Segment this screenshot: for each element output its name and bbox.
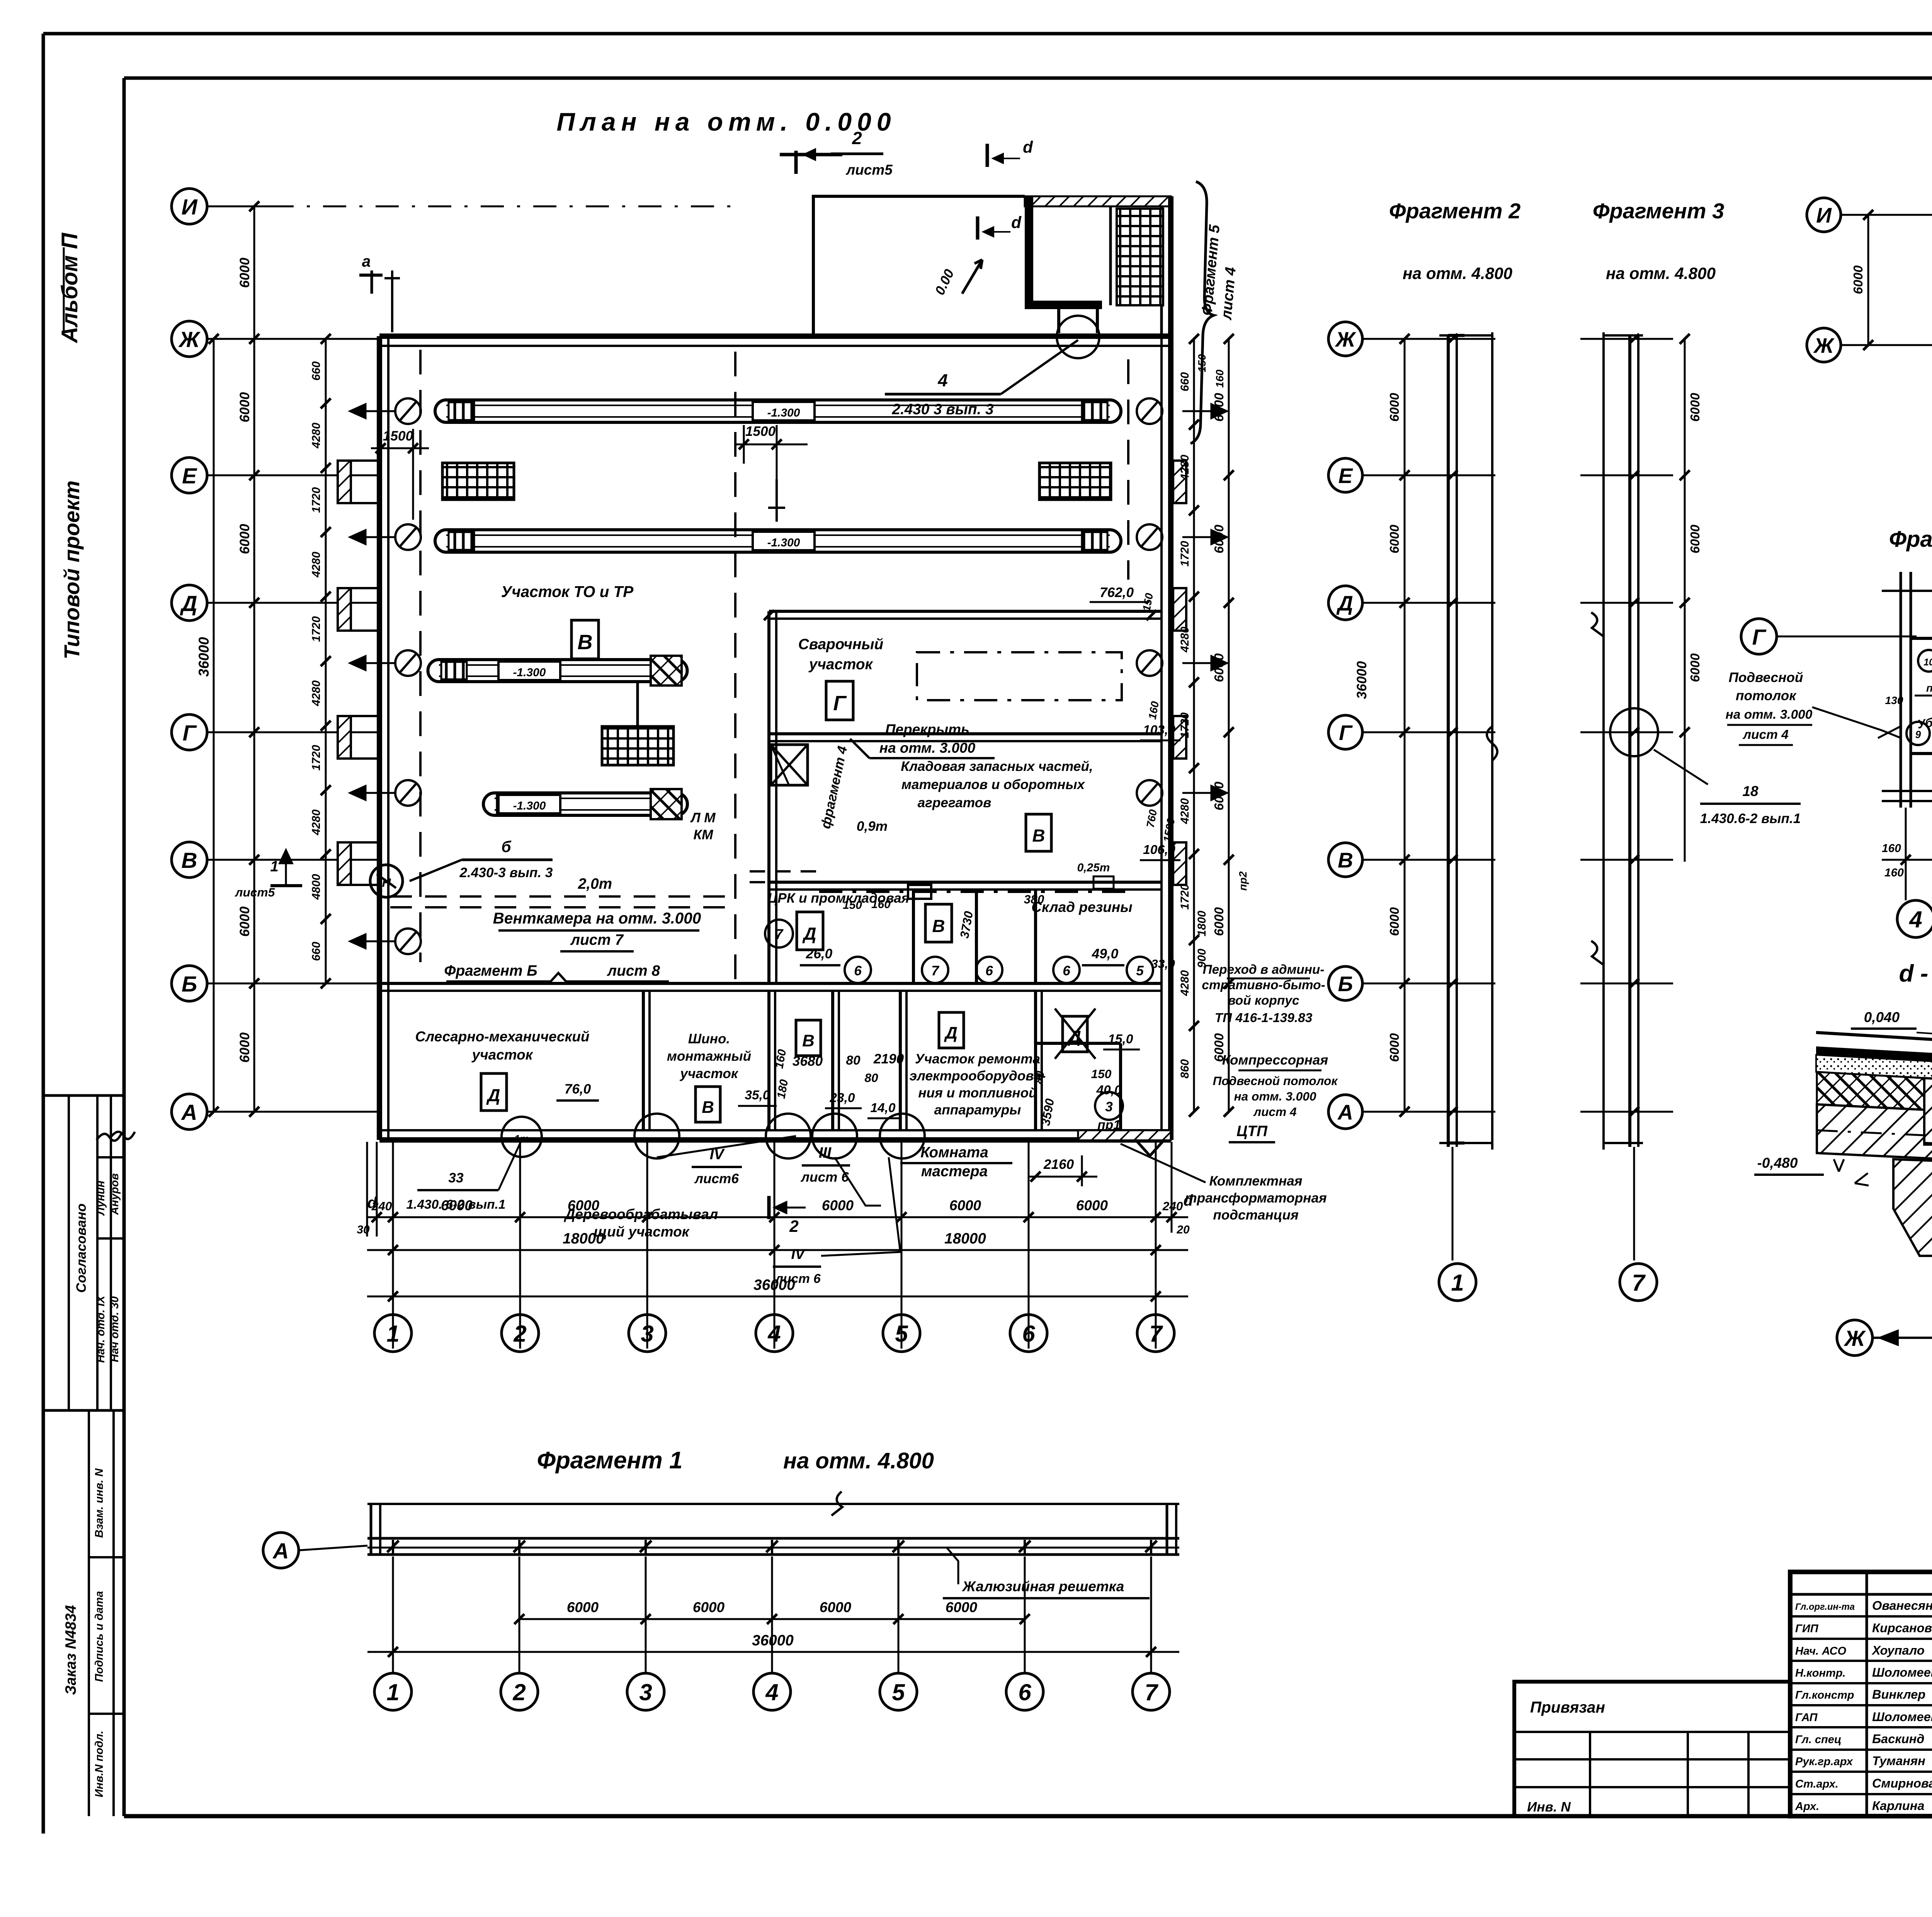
svg-text:Винклер: Винклер <box>1872 1687 1925 1701</box>
svg-text:0,9т: 0,9т <box>857 819 888 834</box>
svg-text:лист 8: лист 8 <box>607 963 660 979</box>
partition wall Перекрыть на отм. 3.000 <box>769 732 1162 735</box>
svg-text:4: 4 <box>767 1321 781 1347</box>
svg-text:на отм. 4.800: на отм. 4.800 <box>1606 264 1716 282</box>
svg-text:Комната: Комната <box>920 1144 988 1161</box>
svg-text:Фрагмент 2: Фрагмент 2 <box>1389 199 1520 223</box>
svg-text:ЦТП: ЦТП <box>1236 1123 1268 1140</box>
svg-text:Д: Д <box>802 924 816 944</box>
room letter Д box crossed <box>1063 1016 1087 1052</box>
right dim chain 6000 <box>1228 339 1230 1112</box>
svg-text:5: 5 <box>892 1679 905 1705</box>
bottom dim chain row1 (240,6000x6,240) <box>367 1216 1188 1218</box>
svg-text:6000: 6000 <box>237 524 252 554</box>
svg-text:6000: 6000 <box>1212 1033 1226 1062</box>
svg-text:660: 660 <box>1179 372 1191 391</box>
svg-text:240: 240 <box>1162 1199 1183 1213</box>
svg-text:Гл.констр: Гл.констр <box>1795 1689 1854 1701</box>
svg-text:1720: 1720 <box>310 745 323 771</box>
svg-text:Д: Д <box>179 591 197 616</box>
svg-text:6: 6 <box>1063 963 1070 978</box>
left dim chain 36000 total <box>213 339 215 1112</box>
svg-text:фрагмент 4: фрагмент 4 <box>818 745 850 830</box>
left exit arrows with circled numbers <box>350 404 395 418</box>
trench ladder right row2 <box>1039 463 1111 500</box>
svg-text:Подвесной: Подвесной <box>1729 670 1803 685</box>
fragment 3 circled node at Г <box>1610 708 1658 756</box>
trench row 3 short (-1.300) <box>428 660 439 682</box>
svg-text:материалов и оборотных: материалов и оборотных <box>901 777 1085 792</box>
svg-text:лист 4: лист 4 <box>1218 266 1239 321</box>
svg-text:36000: 36000 <box>1354 661 1369 699</box>
Склад резины partitions <box>912 890 915 983</box>
room letter В box (кладовая) <box>1026 814 1051 851</box>
svg-text:А: А <box>1337 1100 1353 1124</box>
svg-text:6: 6 <box>854 963 862 978</box>
section mark 2 лист 5 (top) <box>794 151 798 174</box>
building outer wall bottom (axis А) <box>379 1137 1171 1143</box>
room letter В box (шино) <box>696 1087 720 1122</box>
fragment 5 brace right <box>1190 182 1214 444</box>
svg-text:36000: 36000 <box>196 637 212 677</box>
svg-text:240: 240 <box>371 1199 392 1213</box>
svg-text:2,0т: 2,0т <box>578 876 612 892</box>
title block outer frame <box>1790 1572 1932 1816</box>
axis circle Ж <box>172 321 207 357</box>
bottom dim chain row3 (36000) <box>367 1296 1188 1298</box>
sidebar approval box <box>43 1095 124 1410</box>
svg-text:мастера: мастера <box>921 1163 988 1180</box>
svg-text:Альбом П: Альбом П <box>57 232 82 344</box>
svg-text:Привязан: Привязан <box>1530 1698 1605 1716</box>
room letter В box (3730 room) <box>925 904 952 942</box>
svg-text:Ж: Ж <box>178 327 201 352</box>
svg-text:80: 80 <box>846 1053 861 1068</box>
svg-text:Хоупало: Хоупало <box>1871 1643 1925 1657</box>
dashed line centre axis 4 area <box>734 352 736 989</box>
svg-text:Инв.N подл.: Инв.N подл. <box>93 1731 105 1798</box>
svg-text:А: А <box>180 1100 197 1125</box>
svg-text:пр2: пр2 <box>1926 682 1932 694</box>
svg-text:6000: 6000 <box>1212 653 1226 682</box>
svg-text:150: 150 <box>1091 1067 1112 1081</box>
svg-text:Слесарно-механический: Слесарно-механический <box>415 1029 590 1044</box>
svg-text:лист5: лист5 <box>845 162 893 178</box>
svg-text:Подвесной потолок: Подвесной потолок <box>1213 1074 1338 1088</box>
svg-text:3680: 3680 <box>793 1054 823 1069</box>
suspended ceiling dash-dot rect <box>917 652 1122 700</box>
basement axis circle И <box>1807 198 1841 232</box>
corridor wall vertical <box>767 611 770 983</box>
svg-text:15,0: 15,0 <box>1108 1032 1133 1046</box>
svg-text:лист 6: лист 6 <box>800 1170 849 1185</box>
d-d crosshatch insulation block <box>1817 1072 1924 1110</box>
svg-text:20: 20 <box>1176 1223 1190 1236</box>
svg-text:36000: 36000 <box>753 1277 795 1293</box>
fragment 1 top line <box>367 1503 1179 1505</box>
d-d roof slope top line <box>1816 1032 1932 1079</box>
опора hatched пр1 <box>1078 1130 1171 1140</box>
page outer border left <box>42 34 45 1834</box>
svg-text:агрегатов: агрегатов <box>918 795 992 810</box>
room letter В box small <box>796 1020 821 1056</box>
svg-text:Фрагмент Б: Фрагмент Б <box>444 963 537 979</box>
circled 3 пр1 <box>1095 1092 1123 1120</box>
svg-text:1720: 1720 <box>310 487 323 513</box>
fragment 1 column ticks <box>387 1541 399 1552</box>
svg-text:4800: 4800 <box>310 874 323 900</box>
d-d wall block hatched <box>1817 1104 1932 1159</box>
sidebar signatures <box>97 1134 121 1141</box>
svg-text:Участок ремонта: Участок ремонта <box>915 1051 1040 1067</box>
fragment 2 axis circle 1 bottom <box>1452 1147 1454 1260</box>
svg-text:1800: 1800 <box>1196 910 1208 936</box>
svg-text:106,0: 106,0 <box>1143 843 1175 857</box>
d-d beam hatched <box>1924 1078 1932 1147</box>
svg-text:180: 180 <box>775 1078 791 1100</box>
d-d axis circles Ж И bottom <box>1837 1320 1872 1356</box>
svg-text:d - d: d - d <box>1899 960 1932 987</box>
svg-text:7: 7 <box>1149 1321 1163 1347</box>
svg-text:1720: 1720 <box>1179 712 1191 738</box>
svg-text:80: 80 <box>1032 1070 1047 1085</box>
circled numbers row above Б wall <box>845 957 871 983</box>
svg-text:Г: Г <box>183 721 197 745</box>
svg-text:80: 80 <box>864 1071 878 1085</box>
svg-text:d: d <box>1011 213 1022 231</box>
svg-text:В: В <box>802 1031 815 1050</box>
svg-text:150: 150 <box>843 899 862 912</box>
svg-text:Ж: Ж <box>1335 327 1357 351</box>
svg-text:В: В <box>702 1098 714 1117</box>
svg-text:5: 5 <box>1136 963 1144 978</box>
svg-text:Комплектная: Комплектная <box>1209 1174 1303 1189</box>
svg-text:660: 660 <box>310 942 323 961</box>
svg-text:18000: 18000 <box>944 1230 986 1247</box>
entrance block top right <box>813 196 1025 336</box>
svg-text:6000: 6000 <box>1076 1197 1108 1213</box>
svg-text:-1.300: -1.300 <box>767 536 800 549</box>
svg-text:Д: Д <box>1336 591 1353 615</box>
svg-text:4280: 4280 <box>310 422 323 449</box>
svg-text:Нач отд. 30: Нач отд. 30 <box>109 1296 121 1362</box>
svg-text:1: 1 <box>386 1679 399 1705</box>
section mark d (top) <box>986 144 989 167</box>
svg-text:Карлина: Карлина <box>1872 1799 1924 1813</box>
svg-text:-0,480: -0,480 <box>1757 1155 1798 1171</box>
svg-text:160: 160 <box>1882 842 1901 855</box>
svg-text:762,0: 762,0 <box>1100 585 1134 600</box>
svg-text:6000: 6000 <box>1388 524 1402 553</box>
fragment 1 dim 36000 <box>367 1651 1179 1653</box>
svg-text:Гл.орг.ин-та: Гл.орг.ин-та <box>1795 1602 1855 1612</box>
axis circles 1-7 bottom <box>374 1315 412 1352</box>
monorail 2.0т dashed line <box>390 895 736 898</box>
svg-text:4280: 4280 <box>1179 798 1191 824</box>
svg-text:7: 7 <box>775 926 784 942</box>
axis circle И <box>172 189 207 224</box>
svg-text:6000: 6000 <box>567 1599 599 1615</box>
svg-text:лист 4: лист 4 <box>1253 1105 1297 1119</box>
svg-text:Фрагмент 1: Фрагмент 1 <box>537 1447 683 1474</box>
svg-text:Е: Е <box>1338 464 1354 488</box>
svg-text:Ст.арх.: Ст.арх. <box>1795 1778 1838 1790</box>
svg-text:лист5: лист5 <box>235 885 275 899</box>
fragment 1 left end <box>370 1504 372 1555</box>
svg-text:6000: 6000 <box>237 906 252 937</box>
svg-text:участок: участок <box>679 1066 739 1081</box>
svg-text:Заказ N4834: Заказ N4834 <box>63 1605 79 1695</box>
svg-text:Сварочный: Сварочный <box>798 636 883 653</box>
svg-text:Инв. N: Инв. N <box>1527 1800 1571 1815</box>
svg-text:4: 4 <box>937 371 947 390</box>
svg-text:18000: 18000 <box>563 1230 604 1247</box>
svg-text:5: 5 <box>895 1321 908 1347</box>
svg-text:6000: 6000 <box>1388 907 1402 936</box>
svg-text:23,0: 23,0 <box>829 1091 855 1105</box>
fragment 1 break mark <box>832 1492 842 1516</box>
fragment 3 dim chain 6000 right <box>1684 339 1686 862</box>
svg-text:аппаратуры: аппаратуры <box>934 1102 1021 1118</box>
building outer wall right (axis 7) <box>1168 336 1173 1140</box>
fragment 3 axis circle 7 bottom <box>1633 1147 1635 1260</box>
svg-text:Нач. АСО: Нач. АСО <box>1795 1645 1847 1657</box>
svg-text:2.430 3 вып. 3: 2.430 3 вып. 3 <box>891 401 994 418</box>
svg-text:КМ: КМ <box>694 827 714 842</box>
basement axis circle Ж <box>1807 328 1841 362</box>
svg-text:10: 10 <box>1923 657 1932 668</box>
svg-text:И: И <box>182 195 198 219</box>
room letter Д box (участок ремонта) <box>939 1012 964 1048</box>
svg-text:Кирсанов: Кирсанов <box>1872 1621 1932 1635</box>
svg-text:6: 6 <box>1018 1679 1031 1705</box>
section mark 1 лист 5 left <box>280 850 292 885</box>
svg-text:лист 4: лист 4 <box>1742 728 1789 742</box>
building outer wall left (axis 1) <box>377 336 382 1140</box>
svg-text:монтажный: монтажный <box>667 1049 751 1064</box>
svg-text:Арх.: Арх. <box>1795 1800 1819 1813</box>
svg-text:III: III <box>819 1145 832 1161</box>
svg-text:Д: Д <box>486 1085 500 1105</box>
svg-text:6000: 6000 <box>949 1197 981 1213</box>
svg-text:План на отм. 0.000: План на отм. 0.000 <box>556 107 896 136</box>
trench row 1 (-1.300) <box>435 400 446 422</box>
fragment 3 break marks <box>1591 612 1604 636</box>
svg-text:2190: 2190 <box>873 1051 904 1067</box>
svg-text:6000: 6000 <box>1388 393 1402 422</box>
fragment 1 wall strip <box>367 1537 1179 1540</box>
fragment 4 bottom boundary <box>1882 790 1932 792</box>
sheet header band line <box>124 77 1932 80</box>
axis В wall insert circle <box>370 865 403 897</box>
svg-text:Венткамера на отм. 3.000: Венткамера на отм. 3.000 <box>493 909 701 927</box>
axis circle Д <box>172 585 207 621</box>
fragment 4 wall axis lines <box>1900 572 1902 808</box>
svg-text:4: 4 <box>1909 907 1922 932</box>
svg-text:860: 860 <box>1179 1059 1191 1078</box>
svg-text:6000: 6000 <box>1688 653 1702 682</box>
svg-text:Жалюзийная решетка: Жалюзийная решетка <box>962 1579 1124 1594</box>
svg-text:Фрагмент 3: Фрагмент 3 <box>1593 199 1724 223</box>
fragment 2 outer line <box>1491 332 1493 1150</box>
svg-text:подстанция: подстанция <box>1213 1208 1299 1223</box>
svg-text:участок: участок <box>808 656 874 673</box>
svg-text:1: 1 <box>386 1321 399 1347</box>
svg-text:Н.контр.: Н.контр. <box>1795 1667 1846 1679</box>
svg-text:1.430.6-2 вып.1: 1.430.6-2 вып.1 <box>1700 811 1801 826</box>
svg-text:Ж: Ж <box>1844 1326 1866 1351</box>
svg-text:ГИП: ГИП <box>1795 1623 1819 1635</box>
fragment 1 axis circle А <box>263 1533 299 1568</box>
room letter В box (main hall) <box>571 620 599 659</box>
callout Г circle right <box>1741 619 1777 654</box>
svg-text:33,0: 33,0 <box>1151 957 1175 971</box>
svg-text:160: 160 <box>871 898 891 911</box>
fragment 1 axis circles 1-7 <box>392 1556 394 1673</box>
svg-text:Н: Н <box>382 876 391 890</box>
svg-text:160: 160 <box>1146 700 1161 720</box>
svg-text:на отм. 3.000: на отм. 3.000 <box>879 740 976 756</box>
svg-text:пр2: пр2 <box>1237 871 1249 891</box>
svg-text:1500: 1500 <box>383 429 413 444</box>
svg-text:18: 18 <box>1742 783 1759 799</box>
svg-text:3: 3 <box>1105 1099 1113 1114</box>
partition wall row Г (Кладовая top) <box>769 610 1162 613</box>
svg-text:6000: 6000 <box>1688 524 1702 553</box>
svg-text:Б: Б <box>182 972 197 997</box>
svg-text:на отм. 4.800: на отм. 4.800 <box>783 1448 934 1473</box>
svg-text:В: В <box>1032 826 1045 845</box>
fragment 4 top boundary <box>1882 590 1932 592</box>
svg-text:26,0: 26,0 <box>806 946 833 961</box>
drawing frame left <box>122 78 126 1816</box>
svg-text:14,0: 14,0 <box>870 1101 895 1115</box>
svg-text:2: 2 <box>789 1217 799 1235</box>
right facade window piers <box>1173 461 1186 503</box>
fragment 4 cross box <box>771 745 808 785</box>
fragment 2 axis circles <box>1328 322 1362 356</box>
trench ladder left row2 <box>442 463 514 500</box>
trench row 2 (-1.300) <box>435 530 446 552</box>
circled 7 near ЦРК <box>765 920 793 947</box>
svg-text:7: 7 <box>1145 1679 1158 1705</box>
svg-text:на отм. 3.000: на отм. 3.000 <box>1726 708 1813 722</box>
svg-text:380: 380 <box>1024 892 1044 906</box>
svg-text:2: 2 <box>852 128 862 148</box>
svg-text:6000: 6000 <box>822 1197 854 1213</box>
entrance door jamb <box>1057 305 1060 333</box>
svg-text:130: 130 <box>1885 694 1903 706</box>
svg-text:Переход в админи-: Переход в админи- <box>1203 963 1325 977</box>
svg-text:Типовой проект: Типовой проект <box>60 480 84 659</box>
svg-text:Ованесян: Ованесян <box>1872 1599 1932 1613</box>
svg-text:трансформаторная: трансформаторная <box>1185 1191 1327 1206</box>
svg-text:В: В <box>578 631 593 654</box>
axis circle В <box>172 842 207 878</box>
sidebar lower blocks <box>43 1409 124 1412</box>
svg-text:1500: 1500 <box>1161 817 1177 843</box>
right facade sill lines <box>1171 459 1173 462</box>
svg-text:б: б <box>501 838 511 856</box>
axis circle Г <box>172 714 207 750</box>
axis circle А <box>172 1094 207 1129</box>
svg-text:660: 660 <box>310 361 323 381</box>
svg-text:1720: 1720 <box>310 616 323 642</box>
svg-text:Гл. спец: Гл. спец <box>1795 1733 1842 1746</box>
right dim chain piers <box>1193 339 1195 1112</box>
dashed line left bay <box>419 350 422 962</box>
svg-text:76,0: 76,0 <box>565 1082 591 1097</box>
svg-text:Взам. инв. N: Взам. инв. N <box>93 1468 105 1538</box>
fragment 4 axis circle 4 <box>1905 808 1907 900</box>
svg-text:электрооборудова-: электрооборудова- <box>910 1068 1046 1084</box>
svg-text:Л М: Л М <box>690 810 716 825</box>
svg-text:3: 3 <box>641 1321 653 1347</box>
svg-text:Смирнова: Смирнова <box>1872 1776 1932 1790</box>
svg-text:0.00: 0.00 <box>932 267 957 297</box>
left dim chain 6000 bays <box>253 206 255 1112</box>
left bottom ticks <box>366 1142 368 1237</box>
svg-text:9: 9 <box>1915 729 1921 740</box>
basement left dim 6000 <box>1867 215 1869 345</box>
svg-text:ГАП: ГАП <box>1795 1711 1818 1724</box>
svg-text:6000: 6000 <box>237 1032 252 1063</box>
svg-text:4: 4 <box>765 1679 778 1705</box>
fragment 2 wall strip <box>1447 335 1450 1147</box>
svg-text:-1.300: -1.300 <box>513 666 546 679</box>
title block names grid <box>1790 1593 1932 1596</box>
svg-text:760: 760 <box>1144 808 1159 828</box>
svg-text:1: 1 <box>270 858 279 875</box>
svg-text:1720: 1720 <box>1179 884 1191 910</box>
fragment 3 wall strip <box>1628 335 1631 1147</box>
fragment 3 axis ticks <box>1580 338 1673 340</box>
svg-text:вой корпус: вой корпус <box>1228 993 1299 1008</box>
svg-text:Согласовано: Согласовано <box>74 1203 89 1293</box>
svg-text:6000: 6000 <box>237 257 252 288</box>
svg-text:Ануров: Ануров <box>109 1173 121 1215</box>
svg-text:6000: 6000 <box>1212 524 1226 553</box>
svg-text:3: 3 <box>639 1679 652 1705</box>
svg-text:Г: Г <box>1339 721 1353 745</box>
fragment 2 dim chain 6000 <box>1404 339 1406 1112</box>
svg-text:Баскинд: Баскинд <box>1872 1732 1924 1746</box>
svg-text:49,0: 49,0 <box>1092 946 1119 961</box>
svg-text:Е: Е <box>182 464 197 488</box>
wall axis В row (Склад резины band) <box>769 881 1162 884</box>
fragment 1 dim chain 6000 <box>519 1618 1025 1620</box>
svg-text:Ж: Ж <box>1813 333 1835 357</box>
svg-text:лист 7: лист 7 <box>570 932 624 948</box>
svg-text:3730: 3730 <box>957 910 976 939</box>
svg-text:6000: 6000 <box>237 392 252 422</box>
left pier dim chain <box>325 339 327 983</box>
svg-text:Г: Г <box>833 692 847 715</box>
svg-text:6: 6 <box>1022 1321 1035 1347</box>
svg-text:6000: 6000 <box>1851 265 1866 294</box>
svg-text:щий участок: щий участок <box>594 1224 690 1240</box>
fragment 4 WC fixtures <box>1918 650 1932 672</box>
svg-text:потолок: потолок <box>1736 688 1797 703</box>
svg-text:В: В <box>181 848 197 873</box>
svg-text:0,25т: 0,25т <box>1077 861 1110 874</box>
svg-text:6: 6 <box>985 963 993 978</box>
svg-text:А: А <box>272 1539 289 1563</box>
svg-text:2: 2 <box>512 1679 526 1705</box>
svg-text:В: В <box>1338 848 1353 872</box>
svg-text:4280: 4280 <box>1179 626 1191 653</box>
svg-text:6000: 6000 <box>1212 781 1226 810</box>
